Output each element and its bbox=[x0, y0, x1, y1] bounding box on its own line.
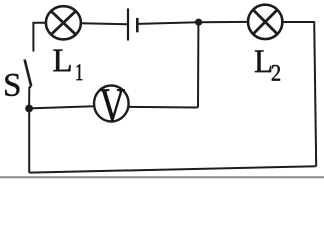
wire bbox=[138, 22, 198, 24]
wire bbox=[81, 23, 127, 24]
wire bbox=[199, 21, 249, 23]
label L1 bbox=[53, 50, 70, 72]
node junction left bbox=[25, 105, 33, 113]
label L2 subscript 2 bbox=[272, 65, 280, 81]
voltmeter letter V bbox=[100, 89, 125, 122]
page rule line bbox=[0, 176, 324, 178]
wire bbox=[129, 106, 198, 109]
lamp L1 bbox=[46, 6, 81, 39]
wire bbox=[33, 23, 46, 52]
battery B bbox=[128, 8, 137, 40]
lamp L2 bbox=[248, 5, 282, 39]
label S bbox=[5, 74, 19, 96]
wire bbox=[29, 106, 94, 108]
wire bbox=[28, 109, 30, 173]
label L2 bbox=[255, 50, 271, 72]
wire bbox=[29, 166, 316, 172]
wire bbox=[29, 86, 31, 108]
switch S blade bbox=[25, 60, 32, 87]
wire bbox=[314, 21, 316, 166]
label L1 subscript 1 bbox=[76, 64, 82, 80]
wire bbox=[197, 25, 199, 108]
wire bbox=[282, 21, 314, 23]
node junction top bbox=[195, 19, 202, 26]
voltmeter V bbox=[94, 86, 129, 122]
